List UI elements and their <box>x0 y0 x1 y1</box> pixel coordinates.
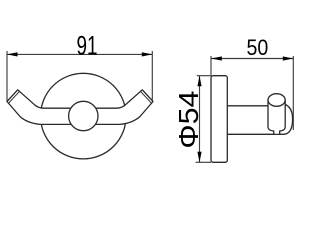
hook arm (side profile with rounded end) <box>227 103 292 135</box>
dimension 91: left arrowhead <box>7 52 18 56</box>
dimension 50: dimension line <box>211 58 293 60</box>
dimension 50: left arrowhead <box>211 56 222 60</box>
hook post body (vertical cylinder) <box>268 100 285 134</box>
dimension P54: dimension line <box>199 76 201 163</box>
dimension 91: dimension line <box>7 53 152 55</box>
dimension 50: left extension segment above plate <box>210 56 212 76</box>
dimension 50: right arrowhead <box>283 56 294 60</box>
svg-text:50: 50 <box>247 35 269 60</box>
center hub small circle <box>69 101 98 130</box>
double hook arm outline <box>7 90 153 125</box>
dimension P54: bottom extension line <box>196 161 212 163</box>
base plate large circle <box>41 73 127 159</box>
dimension 91: right arrowhead <box>142 52 153 56</box>
hook post top cap ellipse <box>268 94 285 107</box>
right hook tip cap inner line <box>141 91 152 103</box>
svg-text:91: 91 <box>77 30 98 60</box>
left hook tip cap inner line <box>9 91 20 103</box>
dimension 50: right extension line <box>292 56 294 130</box>
dimension 91: left extension line <box>6 51 8 101</box>
dimension P54: top arrowhead <box>197 76 201 87</box>
dimension P54: bottom arrowhead <box>197 152 201 163</box>
wall plate (edge-on) <box>211 76 227 163</box>
dimension P54: top extension line <box>197 75 211 77</box>
dimension 91: right extension line <box>151 51 153 101</box>
svg-text:Φ54: Φ54 <box>173 91 204 149</box>
